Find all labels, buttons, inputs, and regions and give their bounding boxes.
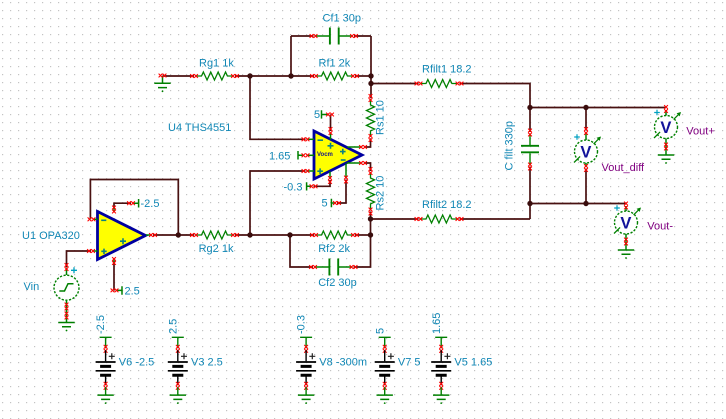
svg-text:Vout_diff: Vout_diff — [602, 162, 646, 174]
svg-text:Cf1 30p: Cf1 30p — [323, 13, 362, 25]
svg-text:Cf2 30p: Cf2 30p — [318, 277, 357, 289]
svg-text:V7 5: V7 5 — [398, 357, 421, 369]
svg-text:1.65: 1.65 — [269, 150, 290, 162]
svg-text:Vout+: Vout+ — [686, 125, 714, 137]
svg-text:V8 -300m: V8 -300m — [319, 357, 367, 369]
svg-text:5: 5 — [314, 109, 320, 121]
svg-text:U4 THS4551: U4 THS4551 — [168, 122, 231, 134]
svg-text:-0.3: -0.3 — [296, 315, 308, 334]
svg-text:V6 -2.5: V6 -2.5 — [119, 357, 154, 369]
svg-text:5: 5 — [374, 328, 386, 334]
svg-text:Vin: Vin — [24, 281, 40, 293]
svg-text:U1 OPA320: U1 OPA320 — [22, 230, 80, 242]
svg-text:1.65: 1.65 — [431, 313, 443, 334]
svg-text:Vout-: Vout- — [647, 221, 673, 233]
svg-text:Rf2 2k: Rf2 2k — [318, 243, 350, 255]
svg-text:Rg2 1k: Rg2 1k — [199, 243, 234, 255]
svg-text:Rs1 10: Rs1 10 — [375, 100, 387, 135]
svg-text:Rs2 10: Rs2 10 — [375, 176, 387, 211]
svg-text:C filt 330p: C filt 330p — [503, 121, 515, 171]
svg-text:-2.5: -2.5 — [141, 198, 160, 210]
svg-text:Rg1 1k: Rg1 1k — [199, 58, 234, 70]
svg-text:2.5: 2.5 — [167, 319, 179, 334]
svg-text:Rfilt1 18.2: Rfilt1 18.2 — [422, 63, 472, 75]
svg-text:2.5: 2.5 — [125, 286, 140, 298]
svg-text:Rfilt2 18.2: Rfilt2 18.2 — [422, 199, 472, 211]
svg-text:5: 5 — [322, 198, 328, 210]
svg-text:Vocm: Vocm — [317, 152, 333, 158]
svg-text:-2.5: -2.5 — [95, 315, 107, 334]
svg-text:V3 2.5: V3 2.5 — [191, 357, 223, 369]
svg-text:V5 1.65: V5 1.65 — [454, 357, 492, 369]
svg-text:Rf1 2k: Rf1 2k — [319, 58, 351, 70]
svg-text:-0.3: -0.3 — [284, 181, 303, 193]
